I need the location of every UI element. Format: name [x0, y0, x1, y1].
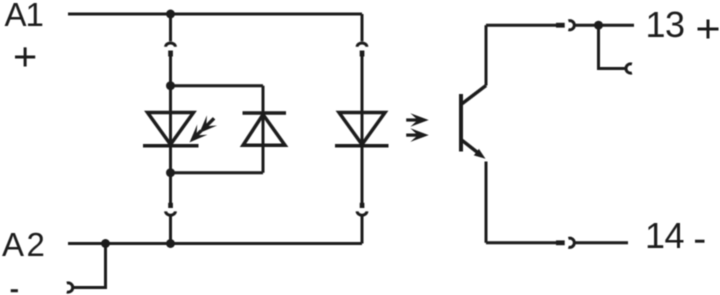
wire socket to 13 terminal	[575, 24, 634, 27]
svg-text:A1: A1	[5, 0, 43, 33]
wire vertical through coupler LED D3	[361, 57, 364, 204]
connector pin (top of coupler branch)	[360, 51, 365, 57]
polarity plus at 13	[698, 20, 719, 39]
connector socket (top of coupler branch)	[357, 43, 367, 47]
connector pin (14 line)	[556, 240, 565, 245]
coupler light arrow 1	[406, 113, 429, 127]
phototransistor Q1 emitter arrowhead	[474, 149, 486, 159]
wire A2 test branch down-left	[74, 244, 106, 288]
wire second LED column from top rail	[361, 14, 364, 41]
wire vertical through LED D1	[169, 86, 172, 203]
polarity minus at A2	[11, 289, 18, 292]
test socket at 13 branch	[626, 64, 632, 73]
polarity plus at A1	[15, 47, 35, 66]
coupler LED D3 triangle	[339, 113, 385, 145]
protection diode D2 triangle	[243, 115, 285, 146]
wire socket down to A2 rail	[169, 216, 172, 244]
svg-text:A2: A2	[2, 226, 47, 263]
protection diode D2 cathode bar	[243, 111, 287, 115]
wire 13 test branch down-right	[599, 25, 627, 68]
wire 13 rail to connector	[486, 24, 556, 27]
wire emitter down to 14 rail	[485, 162, 488, 243]
wire pin to LED branch	[169, 57, 172, 86]
phototransistor Q1 collector stroke	[461, 86, 486, 105]
LED D1 cathode bar	[143, 144, 199, 148]
LED D1 emission arrow 2	[184, 125, 207, 148]
wire 14 rail to connector	[486, 241, 556, 244]
wire jumper bottom to protection diode	[171, 171, 264, 174]
polarity minus at 14	[695, 240, 705, 243]
svg-text:13: 13	[646, 4, 685, 45]
connector socket (13 line)	[568, 21, 574, 30]
junction node on A1 rail	[166, 10, 175, 19]
wire A2 bottom rail	[68, 242, 362, 245]
coupler light arrow 2	[406, 128, 429, 142]
wire socket to 14 terminal	[575, 241, 628, 244]
wire socket down to A2 rail right end	[361, 216, 364, 244]
LED D1 emission arrow 1	[194, 113, 219, 138]
phototransistor Q1 emitter stroke	[461, 140, 480, 155]
test socket at A2 branch	[67, 283, 73, 292]
phototransistor Q1 base bar	[459, 94, 463, 152]
connector socket (top of input branch)	[166, 43, 176, 47]
connector pin (13 line)	[556, 23, 565, 28]
coupler LED D3 cathode bar	[335, 144, 389, 148]
LED D1 triangle	[148, 113, 194, 145]
junction node 13 test branch	[594, 21, 603, 30]
junction node input branch on A2 rail	[166, 239, 175, 248]
wire jumper top to protection diode	[171, 84, 264, 87]
connector pin (bottom of input branch)	[168, 203, 173, 208]
svg-text:14: 14	[645, 215, 684, 256]
wire from A1 node down	[169, 14, 172, 41]
connector pin (bottom of coupler branch)	[360, 203, 365, 208]
wire vertical through protection diode D2	[262, 86, 265, 173]
connector socket (bottom of coupler branch)	[357, 211, 367, 215]
connector pin (top of input branch)	[168, 51, 173, 57]
junction node bottom of LED / diode pair	[166, 168, 175, 177]
connector socket (14 line)	[568, 238, 574, 247]
wire collector up to 13 rail	[485, 25, 488, 85]
junction node A2 test branch	[101, 239, 110, 248]
wire A1 top rail	[68, 13, 362, 16]
connector socket (bottom of input branch)	[166, 211, 176, 215]
junction node top of LED / diode pair	[166, 81, 175, 90]
